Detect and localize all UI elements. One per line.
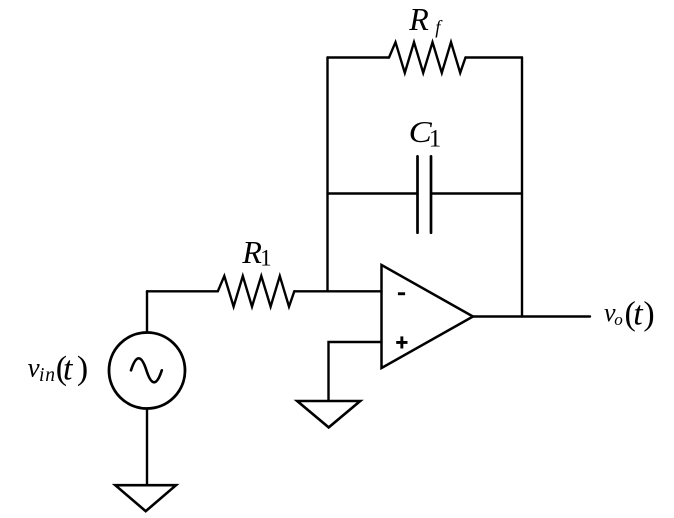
wire input horizontal left (source to R1) (147, 290, 218, 292)
capacitor C1 (418, 156, 432, 232)
svg-text:R: R (408, 1, 429, 37)
svg-text:1: 1 (429, 126, 442, 153)
wire input horizontal right (R1 to op-amp inverting input) (294, 290, 381, 292)
op-amp minus sign (398, 292, 405, 295)
svg-text:1: 1 (260, 245, 272, 270)
wire right vertical feedback (node B down to output) (521, 58, 523, 317)
wire source bottom lead (146, 409, 148, 485)
wire non-inverting input lead (329, 342, 382, 401)
svg-text:in: in (39, 365, 56, 386)
label C1 (409, 115, 442, 152)
svg-text:o: o (614, 310, 623, 329)
wire C1 branch left (328, 192, 418, 194)
label Rf (408, 1, 443, 39)
wire top-right horizontal (Rf to node B) (466, 56, 523, 58)
svg-text:): ) (643, 296, 654, 333)
resistor R1 (218, 276, 294, 307)
wire top-left horizontal (node A to Rf) (328, 56, 390, 58)
source sine symbol (131, 358, 162, 382)
wire output (473, 315, 590, 317)
op-amp U1 (382, 265, 474, 368)
ground (op-amp non-inverting input) (297, 401, 360, 427)
svg-text:t: t (63, 350, 74, 387)
svg-text:f: f (435, 19, 443, 39)
wire left vertical feedback (node A down to inverting input) (326, 58, 328, 292)
label vo(t) (604, 295, 655, 332)
label vin(t) (28, 350, 89, 387)
ground (source) (115, 485, 176, 511)
op-amp plus sign (396, 336, 407, 348)
wire C1 branch right (431, 192, 522, 194)
svg-text:v: v (28, 352, 40, 382)
label R1 (241, 234, 271, 270)
svg-text:): ) (77, 350, 88, 387)
wire source top lead (146, 291, 148, 332)
resistor Rf (389, 42, 466, 73)
source Vin (AC) circle (109, 333, 185, 409)
